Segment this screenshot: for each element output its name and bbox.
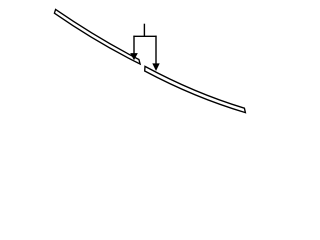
bracket: horizontal bar xyxy=(133,35,156,37)
upper curved band (left beam segment) xyxy=(54,9,140,64)
lower curved band (right beam segment, offset down) xyxy=(145,66,246,112)
right arrow shaft xyxy=(155,36,157,65)
bracket: top stub xyxy=(143,24,145,37)
left arrowhead xyxy=(130,53,138,60)
left arrow shaft xyxy=(133,36,135,54)
right arrowhead xyxy=(152,63,159,71)
